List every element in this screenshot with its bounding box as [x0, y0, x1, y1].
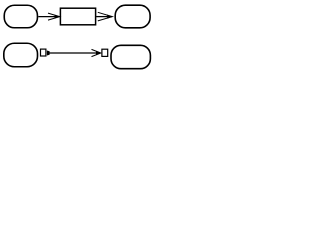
wire: top arrow 2 shaft — [96, 16, 112, 18]
arrowhead: top arrow 1 (open vee) — [55, 15, 60, 19]
node: process rectangle — [60, 8, 95, 25]
node: bottom-left stadium — [4, 43, 38, 67]
arrowhead: top arrow 2 (open vee) — [107, 15, 112, 19]
wire: bottom connector line — [49, 52, 97, 54]
port: small square on bottom-right stadium — [102, 49, 108, 56]
node: top-right stadium — [115, 5, 150, 28]
node: bottom-right stadium — [111, 45, 150, 68]
port: small square on bottom-left stadium — [41, 49, 46, 56]
node: top-left stadium — [4, 5, 37, 28]
wire: top arrow 1 shaft — [38, 16, 58, 18]
arrowtail: small filled nub right of left port — [47, 51, 50, 56]
arrowhead: bottom (thin barbs + solid tip, pointing right) — [96, 51, 101, 55]
background — [0, 0, 154, 76]
